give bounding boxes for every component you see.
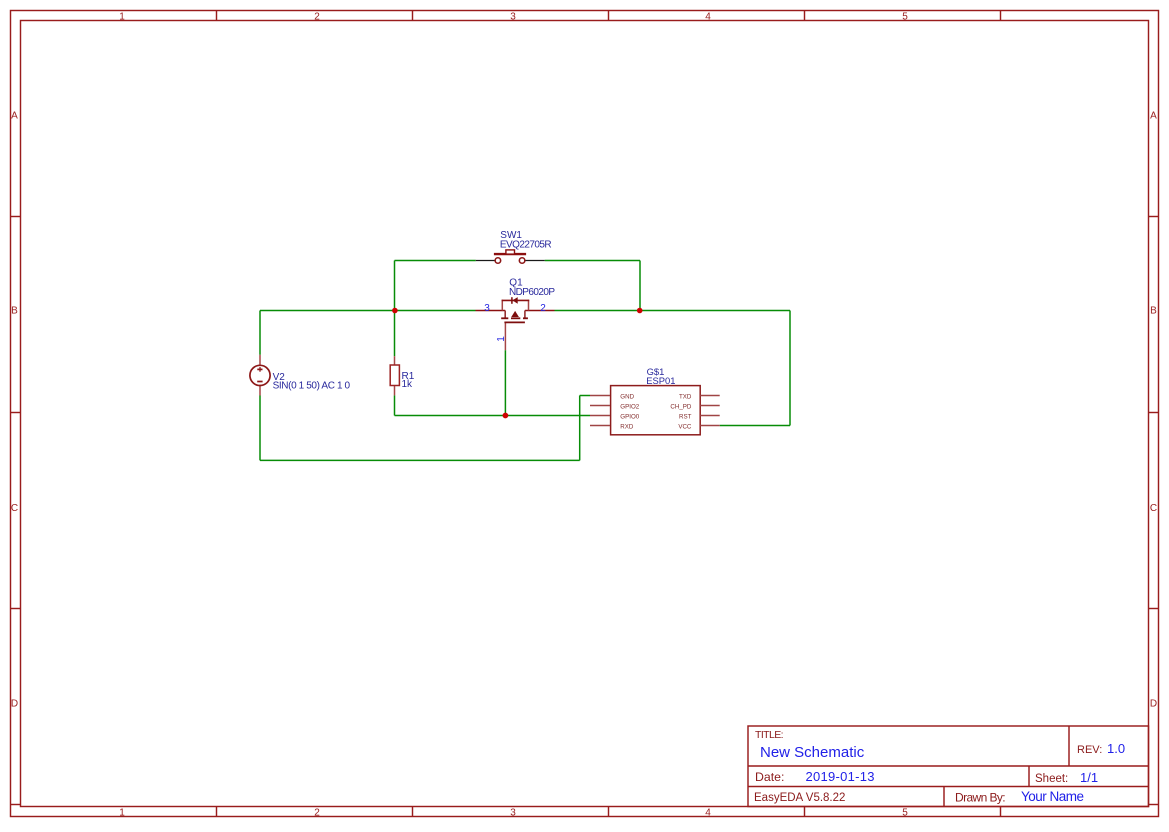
svg-text:New Schematic: New Schematic [760, 744, 865, 761]
svg-text:4: 4 [705, 808, 711, 819]
svg-text:D: D [11, 699, 18, 710]
svg-text:NDP6020P: NDP6020P [509, 287, 555, 298]
svg-text:1: 1 [119, 12, 125, 23]
svg-text:ESP01: ESP01 [646, 375, 675, 386]
Q1 body-diode loop top [502, 299, 530, 301]
Q1 source contact bar [504, 311, 506, 318]
wire: gate net vertical [504, 350, 506, 415]
svg-text:2: 2 [314, 808, 320, 819]
R1 top stub [394, 356, 396, 365]
SW1 button [506, 250, 515, 254]
maroon pin leads (horizontal, dark) [476, 310, 555, 312]
Q1 pin 3 lead [476, 310, 506, 312]
wires (green) [260, 261, 790, 461]
V2 bottom stub [259, 386, 261, 396]
SW1 pin stub right (black) [525, 260, 545, 262]
svg-text:GPIO0: GPIO0 [620, 413, 639, 420]
svg-text:3: 3 [510, 808, 516, 819]
label V2 [273, 372, 351, 392]
svg-text:5: 5 [902, 12, 908, 23]
junction dot C (gate / R1 / GPIO0) [503, 413, 509, 419]
wire: main rail right [555, 310, 791, 312]
wire: gate net horizontal to GPIO0 [395, 415, 591, 417]
svg-text:2019-01-13: 2019-01-13 [806, 769, 875, 784]
svg-text:EVQ22705R: EVQ22705R [500, 240, 552, 251]
svg-text:Your Name: Your Name [1021, 789, 1084, 804]
wire: main rail left [260, 310, 476, 312]
svg-text:RST: RST [679, 413, 692, 420]
svg-text:1: 1 [496, 336, 507, 342]
label R1 [402, 371, 415, 390]
wire: to VCC pin [720, 425, 790, 427]
junction dot A (SW left / rail) [392, 308, 398, 314]
SW1 pin stub left (black) [476, 260, 495, 262]
V2 top stub [259, 355, 261, 365]
Q1 pin 2 lead [525, 310, 555, 312]
svg-text:D: D [1150, 699, 1157, 710]
Q1 body diode [512, 297, 518, 304]
wire: bottom rail [260, 459, 580, 461]
svg-text:A: A [11, 111, 18, 122]
wire: above R1 [394, 311, 396, 357]
svg-text:CH_PD: CH_PD [670, 403, 692, 410]
svg-text:4: 4 [705, 12, 711, 23]
svg-text:2: 2 [540, 303, 546, 314]
ESP01 left pin stubs [590, 396, 720, 426]
svg-text:EasyEDA V5.8.22: EasyEDA V5.8.22 [754, 792, 845, 804]
wire: V2 bottom branch [259, 396, 261, 461]
Q1 channel dashes [501, 318, 528, 322]
SW1 actuator bar [494, 253, 526, 255]
svg-text:3: 3 [484, 303, 490, 314]
ESP01 body [611, 386, 701, 435]
SW1 terminal circle right [519, 258, 525, 264]
svg-text:C: C [11, 503, 18, 514]
wire: up to GND [579, 396, 581, 461]
Q1 substrate arrow [511, 311, 519, 317]
V2 circle [250, 365, 270, 385]
svg-text:SIN(0 1 50) AC 1 0: SIN(0 1 50) AC 1 0 [273, 381, 351, 392]
svg-text:GPIO2: GPIO2 [620, 403, 639, 410]
wire: SW1 to top right [545, 260, 640, 262]
resistor R1 [390, 365, 399, 386]
svg-text:TITLE:: TITLE: [755, 729, 784, 741]
wire: right vertical down to VCC [789, 311, 791, 426]
voltage source V2 [250, 365, 270, 385]
svg-text:5: 5 [902, 808, 908, 819]
svg-text:1k: 1k [402, 379, 414, 390]
ESP01 right pin stubs [700, 395, 720, 397]
svg-text:TXD: TXD [679, 393, 692, 400]
svg-text:VCC: VCC [678, 423, 692, 430]
Q1 gate lead [504, 322, 506, 350]
IC G$1 ESP01 [590, 386, 720, 435]
wire: left drop from switch loop [394, 261, 396, 311]
svg-text:Sheet:: Sheet: [1035, 773, 1068, 785]
Q1 gate bar [504, 321, 525, 323]
wire: into GND pin [580, 395, 590, 397]
wire: V2 top branch [259, 311, 261, 355]
Q1 drain contact bar [524, 311, 526, 318]
svg-text:B: B [1150, 306, 1157, 317]
wire: right drop from switch loop [639, 261, 641, 311]
V2 plus sign [257, 368, 262, 370]
label Q1 [509, 277, 555, 297]
svg-text:RXD: RXD [620, 423, 634, 430]
wire: top left to SW1 [395, 260, 476, 262]
svg-text:C: C [1150, 503, 1157, 514]
label SW1 [500, 230, 552, 251]
Q1 body-diode loop verticals [501, 300, 503, 311]
ESP01 pin names [620, 393, 692, 430]
svg-text:1: 1 [119, 808, 125, 819]
junction dot B (SW right / rail) [637, 308, 643, 314]
wire: below R1 [394, 395, 396, 415]
label G$1 [646, 366, 675, 386]
svg-text:1.0: 1.0 [1107, 741, 1125, 756]
transistor Q1 (NDP6020P) [502, 300, 530, 318]
R1 bottom stub [394, 385, 396, 395]
svg-text:REV:: REV: [1077, 744, 1102, 756]
svg-text:A: A [1150, 111, 1157, 122]
svg-text:GND: GND [620, 393, 634, 400]
svg-text:2: 2 [314, 12, 320, 23]
V2 minus sign [257, 381, 262, 383]
maroon connection stubs (vertical, AA-light) [260, 322, 505, 395]
svg-text:B: B [11, 306, 18, 317]
SW1 terminal circle left [495, 258, 501, 264]
svg-text:1/1: 1/1 [1080, 770, 1098, 785]
svg-text:Date:: Date: [755, 770, 784, 784]
svg-text:3: 3 [510, 12, 516, 23]
svg-text:Drawn By:: Drawn By: [955, 791, 1006, 805]
title block [748, 726, 1149, 807]
switch SW1 [476, 250, 545, 263]
